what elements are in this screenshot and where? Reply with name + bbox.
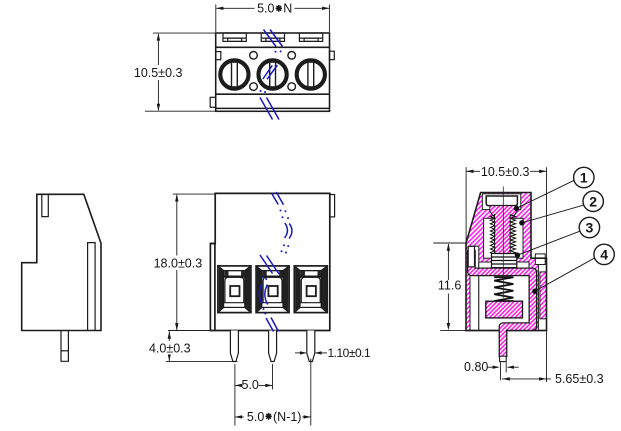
section housing outline xyxy=(466,193,547,331)
serrated clamp plate xyxy=(492,254,517,268)
svg-text:0.80: 0.80 xyxy=(464,360,488,374)
dimension 0.80 xyxy=(488,362,519,380)
svg-text:11.6: 11.6 xyxy=(438,279,461,293)
small hole bottom-right xyxy=(288,83,296,91)
pin tip white xyxy=(500,356,507,361)
top view inner horizontal line under tabs xyxy=(216,46,330,48)
front view body outline xyxy=(210,193,329,330)
callout leader 4 xyxy=(535,258,594,291)
top view inner horizontal line above bottom strip xyxy=(216,93,330,95)
svg-text:N: N xyxy=(283,2,292,16)
svg-text:5.65±0.3: 5.65±0.3 xyxy=(555,372,604,386)
screw circle 3 xyxy=(296,60,326,90)
svg-text:(N-1): (N-1) xyxy=(273,410,301,424)
section lower cavity xyxy=(479,262,529,330)
svg-text:5.0: 5.0 xyxy=(257,2,274,16)
svg-text:3: 3 xyxy=(586,220,594,236)
callout circle 2 xyxy=(583,191,603,211)
top view bottom strip line xyxy=(216,107,330,109)
section housing hatched body xyxy=(466,193,547,331)
dimension 5.0 xyxy=(235,364,273,426)
dimension 4.0±0.3 xyxy=(166,331,238,361)
small hole bottom-left xyxy=(250,83,258,91)
tab 1 top xyxy=(210,33,334,107)
callout leader 1 xyxy=(517,180,574,208)
tab 3 top xyxy=(299,33,322,41)
side view pin xyxy=(61,331,68,362)
side view body outline xyxy=(22,194,101,330)
front view left step line xyxy=(214,244,216,331)
front view top right tab xyxy=(330,195,335,217)
side view flange xyxy=(88,243,96,331)
callout leader 3 xyxy=(517,231,579,255)
thread zigzag left xyxy=(490,215,494,255)
screw head xyxy=(486,196,517,206)
blue break marks top view xyxy=(260,30,283,120)
left inner bump xyxy=(216,52,221,60)
svg-text:10.5±0.3: 10.5±0.3 xyxy=(481,165,530,179)
screw neck hatched xyxy=(490,206,517,216)
dimension 18.0±0.3 xyxy=(168,194,215,330)
tab 2 top xyxy=(261,33,284,41)
svg-text:1: 1 xyxy=(580,170,588,186)
spring xyxy=(494,277,513,301)
pin 3 front xyxy=(307,331,315,362)
thread zigzag right xyxy=(510,215,515,255)
small hole top-right xyxy=(288,52,296,60)
dimension 5.65±0.3 xyxy=(502,378,551,380)
terminal window 2 xyxy=(256,266,289,313)
terminal window 1 xyxy=(218,266,251,313)
callout circle 3 xyxy=(579,217,599,237)
dimension 1.10±0.1 xyxy=(295,352,327,354)
section screw hole cavity xyxy=(484,218,523,258)
callout circle 1 xyxy=(574,167,594,187)
callout leader 2 xyxy=(522,205,583,223)
section left channel xyxy=(470,246,479,330)
screw circle 1 xyxy=(220,60,250,90)
terminal window 3 xyxy=(294,266,327,313)
svg-text:4: 4 xyxy=(600,246,608,262)
section centerline xyxy=(502,187,504,299)
screw threaded core xyxy=(495,213,511,258)
right outer bump xyxy=(330,51,335,59)
svg-text:2: 2 xyxy=(589,193,597,209)
section head cavity xyxy=(482,194,521,210)
svg-text:4.0±0.3: 4.0±0.3 xyxy=(149,341,191,355)
section right rear column hatched xyxy=(540,272,546,319)
small hole top-left xyxy=(250,52,258,60)
pin 1 front xyxy=(230,331,238,362)
section right white channel xyxy=(538,261,546,330)
side view top slot xyxy=(42,194,49,216)
dimension 5.0*(N-1) xyxy=(235,359,311,426)
dimension 10.5±0.3 (section) xyxy=(466,167,546,382)
metal strip clamp (hatched bent strip) xyxy=(471,250,533,357)
dimension 10.5±0.3 (top view) xyxy=(145,33,215,111)
screw core edges xyxy=(494,214,496,256)
strip left upturn tab xyxy=(468,246,474,266)
section right step notch xyxy=(535,254,545,265)
svg-text:18.0±0.3: 18.0±0.3 xyxy=(154,256,203,270)
bottom-left outer bump xyxy=(210,97,216,107)
svg-text:5.0: 5.0 xyxy=(247,410,264,424)
hatched block under spring xyxy=(486,301,523,318)
dimension 11.6 xyxy=(433,243,465,331)
dimension 5.0*N xyxy=(216,5,330,33)
svg-text:5.0: 5.0 xyxy=(242,378,259,392)
pin 2 front xyxy=(269,331,277,362)
svg-text:1.10±0.1: 1.10±0.1 xyxy=(328,346,371,360)
blue break curve front view xyxy=(259,192,292,332)
callout circle 4 xyxy=(594,244,614,264)
svg-text:10.5±0.3: 10.5±0.3 xyxy=(134,66,183,80)
top view body outline xyxy=(216,33,330,111)
screw circle 2 xyxy=(258,60,288,90)
